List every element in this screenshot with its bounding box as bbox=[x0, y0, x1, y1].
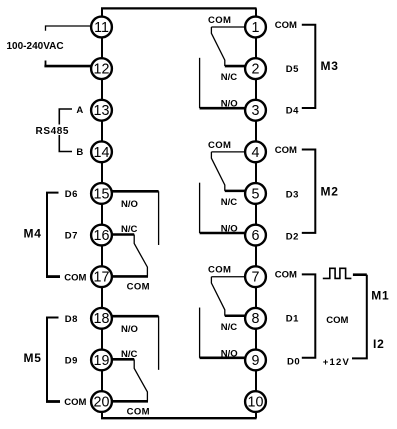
contact N/C wire (terminal 16) bbox=[113, 233, 135, 236]
svg-text:6: 6 bbox=[252, 228, 260, 244]
svg-text:N/O: N/O bbox=[221, 224, 238, 235]
terminal node 17 bbox=[91, 266, 112, 287]
terminal node 9 bbox=[245, 350, 266, 371]
svg-text:A: A bbox=[76, 105, 83, 116]
svg-text:D8: D8 bbox=[65, 314, 78, 325]
contact COM wire (terminal 1) bbox=[211, 26, 245, 28]
svg-text:2: 2 bbox=[252, 62, 260, 78]
svg-text:COM: COM bbox=[208, 15, 231, 26]
terminal node 18 bbox=[91, 308, 112, 329]
svg-text:M5: M5 bbox=[24, 351, 42, 365]
svg-text:15: 15 bbox=[94, 186, 110, 202]
svg-text:B: B bbox=[76, 147, 83, 158]
svg-text:M3: M3 bbox=[321, 59, 339, 73]
svg-text:12: 12 bbox=[94, 62, 110, 78]
bracket M5 bbox=[47, 318, 59, 402]
svg-text:M2: M2 bbox=[321, 185, 339, 199]
svg-text:M1: M1 bbox=[371, 289, 389, 303]
wire AC line N to terminal 12 bbox=[44, 61, 91, 67]
svg-text:COM: COM bbox=[64, 397, 86, 408]
contact N/C wire (terminal 2) bbox=[225, 65, 245, 68]
svg-text:11: 11 bbox=[94, 20, 109, 36]
contact COM wire (terminal 4) bbox=[211, 151, 245, 153]
bracket M4 bbox=[47, 193, 59, 277]
svg-text:COM: COM bbox=[275, 145, 297, 156]
terminal node 4 bbox=[245, 141, 266, 162]
terminal node 16 bbox=[91, 225, 112, 246]
terminal node 3 bbox=[245, 100, 266, 121]
bracket M3 bbox=[302, 25, 316, 108]
terminal node 12 bbox=[91, 58, 112, 79]
terminal node 15 bbox=[91, 183, 112, 204]
svg-text:I2: I2 bbox=[373, 337, 385, 351]
relay armature (terminals 7-8) bbox=[211, 277, 224, 316]
svg-text:3: 3 bbox=[252, 103, 260, 119]
svg-text:D0: D0 bbox=[287, 357, 300, 368]
terminal node 5 bbox=[245, 183, 266, 204]
bracket M5 bottom tick bbox=[46, 400, 60, 403]
wire left column bus (terminals 11-20) bbox=[101, 8, 103, 418]
relay armature (terminals 4-5) bbox=[211, 152, 224, 191]
svg-text:+12V: +12V bbox=[323, 357, 350, 368]
svg-text:COM: COM bbox=[208, 265, 231, 276]
pulse waveform symbol bbox=[323, 268, 352, 278]
svg-text:18: 18 bbox=[94, 311, 110, 327]
bracket M4 bottom tick bbox=[46, 275, 60, 278]
terminal node 7 bbox=[245, 266, 266, 287]
svg-text:D4: D4 bbox=[286, 106, 299, 117]
svg-text:20: 20 bbox=[94, 394, 110, 410]
contact N/O open-end riser (terminal 15) bbox=[158, 191, 160, 245]
wire top bus (terminal 11 to terminal 1) bbox=[101, 7, 257, 9]
terminal node 11 bbox=[91, 17, 112, 38]
svg-text:14: 14 bbox=[94, 145, 110, 161]
svg-text:COM: COM bbox=[127, 406, 150, 417]
contact N/O open-end riser (terminal 6) bbox=[199, 183, 201, 233]
svg-text:5: 5 bbox=[252, 186, 260, 202]
svg-text:N/C: N/C bbox=[221, 72, 238, 83]
svg-text:COM: COM bbox=[208, 140, 231, 151]
svg-text:M4: M4 bbox=[24, 226, 42, 240]
svg-text:D7: D7 bbox=[65, 231, 78, 242]
svg-text:N/C: N/C bbox=[221, 322, 238, 333]
relay armature (terminals 16-17) bbox=[134, 235, 147, 277]
terminal node 10 bbox=[245, 391, 266, 412]
svg-text:D6: D6 bbox=[65, 189, 78, 200]
svg-text:9: 9 bbox=[252, 353, 260, 369]
contact COM wire (terminal 7) bbox=[211, 276, 245, 278]
contact N/O open-end riser (terminal 9) bbox=[199, 308, 201, 358]
svg-text:N/O: N/O bbox=[121, 324, 138, 335]
svg-text:N/C: N/C bbox=[221, 197, 238, 208]
terminal node 19 bbox=[91, 350, 112, 371]
contact N/O open-end riser (terminal 3) bbox=[199, 58, 201, 108]
contact N/O wire (terminal 18) bbox=[113, 315, 159, 318]
terminal node 14 bbox=[91, 141, 112, 162]
contact N/C wire (terminal 19) bbox=[113, 358, 135, 361]
relay armature (terminals 19-20) bbox=[134, 359, 147, 401]
svg-text:1: 1 bbox=[252, 20, 260, 36]
svg-text:COM: COM bbox=[127, 282, 150, 293]
svg-text:13: 13 bbox=[94, 103, 110, 119]
wire right column bus (terminals 1-10) bbox=[255, 8, 257, 418]
contact N/C wire (terminal 5) bbox=[225, 190, 245, 193]
contact COM wire (terminal 20) bbox=[113, 400, 149, 403]
svg-text:COM: COM bbox=[326, 315, 348, 326]
terminal node 6 bbox=[245, 225, 266, 246]
svg-text:19: 19 bbox=[94, 353, 110, 369]
terminal node 20 bbox=[91, 391, 112, 412]
bracket I2 bbox=[352, 275, 367, 359]
wire bottom bus (terminal 20 to terminal 10) bbox=[101, 417, 257, 419]
svg-text:D3: D3 bbox=[286, 189, 299, 200]
bracket I2 top tick bbox=[353, 273, 367, 276]
svg-text:N/O: N/O bbox=[121, 199, 138, 210]
terminal node 8 bbox=[245, 308, 266, 329]
svg-text:COM: COM bbox=[275, 270, 297, 281]
terminal node 1 bbox=[245, 17, 266, 38]
bracket M2 bbox=[302, 150, 316, 233]
svg-text:17: 17 bbox=[94, 270, 110, 286]
relay armature (terminals 1-2) bbox=[211, 27, 224, 66]
label RS485 bbox=[34, 125, 73, 137]
bracket RS485 A/B bbox=[59, 109, 72, 152]
terminal node 2 bbox=[245, 58, 266, 79]
contact N/O wire (terminal 6) bbox=[200, 232, 246, 235]
svg-text:4: 4 bbox=[252, 145, 260, 161]
svg-text:7: 7 bbox=[252, 270, 260, 286]
terminal node 13 bbox=[91, 100, 112, 121]
wire AC line L to terminal 11 bbox=[46, 26, 92, 31]
svg-text:10: 10 bbox=[248, 394, 264, 410]
svg-text:COM: COM bbox=[64, 272, 86, 283]
svg-text:100-240VAC: 100-240VAC bbox=[7, 41, 64, 52]
contact N/O wire (terminal 15) bbox=[113, 190, 159, 193]
contact N/C wire (terminal 8) bbox=[225, 314, 245, 317]
contact N/O wire (terminal 3) bbox=[200, 107, 246, 110]
contact COM wire (terminal 17) bbox=[113, 275, 149, 278]
svg-text:N/O: N/O bbox=[221, 99, 238, 110]
svg-text:N/O: N/O bbox=[221, 348, 238, 359]
svg-text:8: 8 bbox=[252, 311, 260, 327]
svg-text:COM: COM bbox=[275, 20, 297, 31]
svg-text:RS485: RS485 bbox=[36, 126, 70, 137]
svg-text:D1: D1 bbox=[286, 314, 299, 325]
contact N/O wire (terminal 9) bbox=[200, 357, 246, 360]
svg-text:D9: D9 bbox=[65, 356, 78, 367]
svg-text:D5: D5 bbox=[286, 64, 299, 75]
svg-text:16: 16 bbox=[94, 228, 110, 244]
contact N/O open-end riser (terminal 18) bbox=[158, 316, 160, 370]
bracket M1/I2 input rows bbox=[302, 274, 316, 357]
svg-text:D2: D2 bbox=[286, 231, 299, 242]
